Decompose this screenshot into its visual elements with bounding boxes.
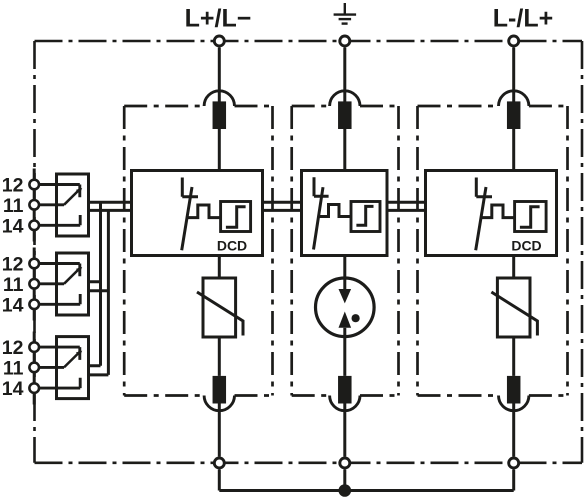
block 2 bottom exit arc bbox=[330, 396, 360, 411]
fuse F1 (top, block 1) bbox=[213, 101, 227, 129]
block 1 border bottom bbox=[124, 394, 272, 397]
wire bottom bus bbox=[219, 489, 513, 492]
svg-text:12: 12 bbox=[2, 337, 24, 359]
wire bottom terminal 3 down bbox=[512, 470, 515, 491]
fuse F3 (top, block 3) bbox=[507, 101, 521, 129]
block 3 bottom exit arc bbox=[499, 396, 529, 411]
svg-text:11: 11 bbox=[3, 195, 24, 217]
block 2 border left bbox=[290, 106, 293, 396]
K1 pin 12 lead bbox=[39, 185, 80, 198]
block 1 border left bbox=[123, 106, 126, 396]
DCD disconnector U2 box bbox=[302, 171, 388, 256]
svg-text:11: 11 bbox=[3, 274, 24, 296]
terminal 12.3 bbox=[29, 342, 39, 352]
pin labels group 2 bbox=[2, 253, 24, 316]
terminal L+/L- top bbox=[214, 36, 224, 46]
wire varistor RV2 to fuse F6 bbox=[512, 337, 515, 376]
K3 blade bbox=[64, 351, 81, 367]
wire ground terminal to fuse F2 bbox=[343, 48, 346, 102]
K2 pin 14 lead bbox=[39, 294, 80, 304]
terminal bottom 2 bbox=[340, 458, 350, 468]
wire L+ terminal to fuse F1 bbox=[218, 48, 221, 102]
wire L- terminal to fuse F3 bbox=[512, 48, 515, 102]
K3 pin 14 lead bbox=[39, 378, 80, 388]
pin labels group 1 bbox=[2, 174, 24, 237]
block 2 border right bbox=[397, 106, 400, 396]
outer enclosure border top bbox=[35, 40, 583, 43]
wire fuse F1 to disconnector U1 bbox=[218, 129, 221, 171]
K1 blade bbox=[64, 189, 81, 205]
wire fuse F6 to bottom terminal 3 bbox=[512, 404, 515, 457]
block 1 top entry arc bbox=[204, 91, 234, 106]
fuse F4 (bottom, block 1) bbox=[213, 376, 227, 404]
relay K2 linkage stubs bbox=[89, 282, 109, 291]
pin labels group 3 bbox=[2, 337, 24, 400]
spark gap G1 lower electrode arrow bbox=[339, 312, 352, 328]
block 3 border top bbox=[418, 105, 568, 108]
K3 pin 12 lead bbox=[39, 347, 80, 360]
terminal 11.2 bbox=[29, 279, 39, 289]
relay K3 linkage stubs bbox=[89, 366, 109, 375]
junction dot bbox=[339, 484, 352, 497]
terminal ground top bbox=[340, 36, 350, 46]
svg-text:12: 12 bbox=[2, 253, 24, 275]
DCD disconnector U3 box bbox=[426, 171, 557, 256]
varistor RV2 diagonal bbox=[491, 292, 537, 336]
terminal L-/L+ top bbox=[509, 36, 519, 46]
K1 box bbox=[57, 174, 89, 236]
U1 linkage step line bbox=[187, 205, 221, 218]
wire varistor RV1 to fuse F4 bbox=[218, 337, 221, 376]
K2 blade bbox=[64, 268, 81, 284]
U1 switch blade bbox=[182, 187, 192, 250]
varistor RV2 body bbox=[497, 278, 530, 337]
outer enclosure border right bbox=[581, 41, 584, 463]
svg-text:14: 14 bbox=[2, 294, 24, 316]
outer enclosure border bottom bbox=[35, 461, 583, 464]
block 2 border bottom bbox=[292, 394, 399, 397]
K3 box bbox=[57, 337, 89, 399]
K1 pin 14 lead bbox=[39, 215, 80, 225]
terminal 11.1 bbox=[29, 200, 39, 210]
svg-text:DCD: DCD bbox=[511, 238, 541, 254]
U1 trigger step symbol bbox=[226, 207, 246, 227]
fuse F2 (top, block 2) bbox=[338, 101, 352, 129]
svg-text:L+/L−: L+/L− bbox=[185, 5, 252, 33]
wire fuse F2 to disconnector U2 bbox=[343, 129, 346, 171]
mechanical linkage pair relay K1 to U1 bbox=[89, 202, 132, 210]
mechanical linkage pair U2 to U3 bbox=[387, 202, 426, 210]
terminal 12.2 bbox=[29, 259, 39, 269]
wire bottom terminal 1 down bbox=[218, 470, 221, 491]
block 1 border right bbox=[271, 106, 274, 396]
U2 trigger step symbol bbox=[356, 206, 373, 225]
terminal 11.3 bbox=[29, 363, 39, 373]
left border solid segment group 3 bbox=[33, 332, 36, 405]
U2 trigger box bbox=[351, 202, 380, 232]
K3 pin 11 lead bbox=[39, 366, 64, 369]
block 3 border bottom bbox=[418, 394, 568, 397]
wire U2 to spark gap G1 bbox=[343, 256, 346, 290]
outer enclosure border left bbox=[33, 41, 36, 463]
U1 switch fixed lead bbox=[182, 178, 198, 197]
spark gap G1 upper electrode arrow bbox=[339, 289, 352, 303]
svg-text:11: 11 bbox=[3, 358, 24, 380]
K2 box bbox=[57, 253, 89, 315]
block 1 border top bbox=[124, 105, 272, 108]
varistor RV1 body bbox=[203, 278, 236, 337]
svg-text:12: 12 bbox=[2, 174, 24, 196]
block 3 border left bbox=[416, 106, 419, 396]
block 3 border right bbox=[566, 106, 569, 396]
block 2 border top bbox=[292, 105, 399, 108]
U2 switch blade bbox=[314, 187, 324, 249]
fuse F6 (bottom, block 3) bbox=[507, 376, 521, 404]
relay terminal circles bbox=[29, 180, 39, 393]
wire fuse F4 to bottom terminal 1 bbox=[218, 404, 221, 457]
main terminals bbox=[214, 36, 518, 468]
svg-text:L-/L+: L-/L+ bbox=[493, 5, 553, 33]
wire spark gap G1 to fuse F5 bbox=[343, 328, 346, 376]
block 1 bottom exit arc bbox=[204, 396, 234, 411]
relay contact K1 bbox=[39, 174, 89, 236]
svg-text:14: 14 bbox=[2, 215, 24, 237]
wire U3 to varistor RV2 bbox=[512, 256, 515, 279]
block 3 top entry arc bbox=[499, 91, 529, 106]
varistor RV1 diagonal bbox=[197, 292, 243, 336]
terminal 14.2 bbox=[29, 300, 39, 310]
U1 trigger box bbox=[221, 202, 251, 232]
U3 trigger step symbol bbox=[520, 207, 540, 227]
terminal 14.1 bbox=[29, 221, 39, 231]
linkage drop line V2 bbox=[107, 210, 110, 375]
mechanical linkage pair U1 to U2 bbox=[263, 202, 302, 210]
terminal bottom 3 bbox=[509, 458, 519, 468]
K2 pin 11 lead bbox=[39, 282, 64, 285]
wire fuse F3 to disconnector U3 bbox=[512, 129, 515, 171]
block 2 top entry arc bbox=[330, 91, 360, 106]
linkage drop line V1 bbox=[99, 202, 102, 365]
left border solid segment group 2 bbox=[33, 248, 36, 321]
K1 pin 11 lead bbox=[39, 203, 64, 206]
K2 blade arrow bbox=[76, 267, 82, 273]
U2 switch fixed lead bbox=[314, 177, 329, 196]
wire U1 to varistor RV1 bbox=[218, 256, 221, 279]
svg-text:DCD: DCD bbox=[217, 238, 247, 254]
K1 blade arrow bbox=[76, 188, 82, 194]
wire bottom terminal 2 to junction bbox=[343, 470, 346, 491]
terminal 12.1 bbox=[29, 180, 39, 190]
spark gap G1 circle bbox=[316, 278, 375, 337]
U3 trigger box bbox=[515, 202, 547, 232]
terminal 14.3 bbox=[29, 383, 39, 393]
svg-text:14: 14 bbox=[2, 378, 24, 400]
ground symbol bbox=[334, 3, 357, 24]
spark gap G1 gas indicator dot bbox=[352, 314, 360, 322]
left border solid segment group 1 bbox=[33, 169, 36, 242]
fuse F5 (bottom, block 2) bbox=[338, 376, 352, 404]
U3 switch fixed lead bbox=[476, 178, 492, 197]
K2 pin 12 lead bbox=[39, 264, 80, 277]
U3 linkage step line bbox=[481, 205, 515, 218]
wire fuse F5 to bottom terminal 2 bbox=[343, 404, 346, 457]
relay contact K2 bbox=[39, 253, 89, 315]
K3 blade arrow bbox=[76, 351, 82, 357]
DCD disconnector U1 box bbox=[132, 171, 263, 256]
relay contact K3 bbox=[39, 337, 89, 399]
U2 linkage step line bbox=[319, 205, 352, 217]
terminal bottom 1 bbox=[214, 458, 224, 468]
U3 switch blade bbox=[476, 187, 486, 250]
